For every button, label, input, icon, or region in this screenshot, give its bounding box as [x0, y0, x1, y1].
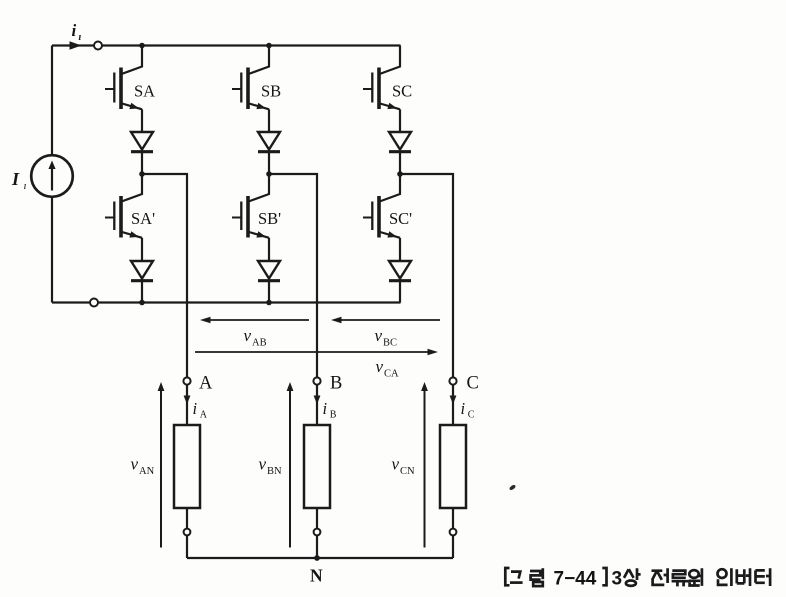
- svg-text:ı: ı: [79, 32, 82, 43]
- svg-text:SB: SB: [261, 82, 281, 101]
- caption hangul SANG (상): [624, 568, 641, 586]
- svg-text:v: v: [375, 326, 383, 345]
- caption hangul RYU (류): [672, 571, 689, 587]
- svg-text:v: v: [392, 455, 400, 474]
- junction node midpoint leg A: [139, 171, 145, 177]
- svg-text:I: I: [11, 169, 20, 189]
- terminal circle below load C: [450, 529, 457, 536]
- load resistor phase B: [304, 425, 330, 508]
- svg-text:A: A: [200, 410, 208, 421]
- svg-text:SA': SA': [131, 209, 155, 228]
- caption hangul RIM (림): [530, 568, 543, 586]
- current direction arrow i on top rail: [70, 41, 82, 49]
- caption hangul BEO (버): [737, 568, 750, 586]
- wire upper diode to midpoint node B: [268, 153, 270, 174]
- wire output branch C: midpoint to node C: [400, 174, 453, 377]
- wire terminal A to neutral line: [186, 535, 188, 558]
- load resistor phase C: [440, 425, 466, 508]
- open terminal circle on top rail: [94, 42, 102, 50]
- caption hangul GEU (그): [510, 572, 523, 583]
- svg-text:N: N: [310, 566, 323, 586]
- ink speck (scan artifact): [509, 484, 517, 491]
- transistor SA': [105, 174, 142, 238]
- wire upper diode to midpoint node C: [399, 153, 401, 174]
- wire A emitter to upper diode: [141, 109, 143, 132]
- svg-text:7−44: 7−44: [554, 569, 597, 590]
- caption bracket ]: [602, 568, 606, 585]
- node B terminal circle: [313, 377, 320, 384]
- arrow v_AN (points up): [160, 388, 162, 548]
- transistor SA: [105, 46, 142, 110]
- diode DC lower: [389, 261, 411, 281]
- wire upper diode to midpoint node A: [141, 153, 143, 174]
- svg-text:3: 3: [612, 569, 623, 590]
- junction node midpoint leg B: [266, 171, 272, 177]
- current source I_s: [31, 155, 73, 197]
- svg-text:v: v: [376, 357, 384, 376]
- svg-text:A: A: [199, 374, 213, 394]
- svg-text:B: B: [330, 374, 342, 394]
- svg-text:v: v: [131, 455, 139, 474]
- junction node N: [314, 555, 320, 561]
- caption hangul TEO (터): [755, 568, 770, 586]
- junction node bottom rail / leg A: [139, 300, 145, 306]
- wire terminal B to neutral line: [316, 535, 318, 558]
- caption hangul JEON (전): [652, 568, 668, 585]
- diode DB lower: [258, 261, 280, 281]
- transistor SB: [232, 46, 269, 110]
- wire C lower emitter to lower diode: [399, 238, 401, 261]
- wire node A to load, with current arrow i_A: [186, 385, 188, 425]
- arrow v_BN (points up): [289, 388, 291, 548]
- svg-text:C: C: [468, 410, 475, 421]
- wire output branch A: midpoint to node A: [142, 174, 187, 377]
- node A terminal circle: [183, 377, 190, 384]
- svg-text:v: v: [244, 326, 252, 345]
- terminal circle below load B: [314, 529, 321, 536]
- svg-text:SC: SC: [392, 82, 412, 101]
- diode DA upper: [131, 132, 153, 152]
- transistor SC': [363, 174, 400, 238]
- wire left vertical (source top): [51, 46, 53, 156]
- wire terminal C to neutral line: [452, 535, 454, 558]
- wire lower diode to bottom rail leg A: [141, 282, 143, 303]
- svg-text:CN: CN: [400, 466, 415, 477]
- svg-text:i: i: [72, 21, 77, 40]
- diode DC upper: [389, 132, 411, 152]
- caption hangul WON (원): [689, 568, 702, 586]
- svg-text:CA: CA: [384, 369, 399, 380]
- junction node top rail / leg B: [266, 43, 272, 49]
- svg-text:ı: ı: [24, 180, 27, 192]
- svg-text:i: i: [193, 399, 198, 418]
- wire node C to load, with current arrow i_C: [452, 385, 454, 425]
- wire A lower emitter to lower diode: [141, 238, 143, 261]
- wire top DC rail: [52, 44, 401, 46]
- caption bracket [: [505, 568, 509, 585]
- load resistor phase A: [174, 425, 200, 508]
- transistor SC: [363, 46, 400, 110]
- svg-text:AB: AB: [252, 338, 267, 349]
- wire neutral line N: [187, 557, 453, 559]
- wire lower diode to bottom rail leg C: [399, 282, 401, 303]
- svg-text:BC: BC: [383, 338, 397, 349]
- svg-text:C: C: [467, 374, 479, 394]
- wire lower diode to bottom rail leg B: [268, 282, 270, 303]
- node C terminal circle: [449, 377, 456, 384]
- wire B emitter to upper diode: [268, 109, 270, 132]
- svg-text:B: B: [330, 410, 337, 421]
- wire bottom DC rail: [52, 301, 401, 303]
- wire output branch B: midpoint to node B: [269, 174, 317, 377]
- svg-text:i: i: [461, 399, 466, 418]
- svg-text:BN: BN: [267, 466, 282, 477]
- wire load B bottom to terminal: [316, 508, 318, 529]
- junction node top rail / leg A: [139, 43, 145, 49]
- wire C emitter to upper diode: [399, 109, 401, 132]
- svg-text:SC': SC': [389, 209, 412, 228]
- terminal circle below load A: [184, 529, 191, 536]
- svg-text:AN: AN: [139, 466, 155, 477]
- arrow v_BC (points left): [335, 319, 440, 321]
- svg-text:v: v: [259, 455, 267, 474]
- arrow v_CA (points right): [195, 351, 428, 353]
- caption hangul IN (인): [718, 568, 732, 586]
- wire node B to load, with current arrow i_B: [316, 385, 318, 425]
- open terminal circle on bottom rail: [90, 299, 98, 307]
- diode DB upper: [258, 132, 280, 152]
- wire load C bottom to terminal: [452, 508, 454, 529]
- junction node midpoint leg C: [397, 171, 403, 177]
- transistor SB': [232, 174, 269, 238]
- svg-text:i: i: [323, 399, 328, 418]
- arrow v_AB (points left): [204, 319, 309, 321]
- wire B lower emitter to lower diode: [268, 238, 270, 261]
- wire left vertical (source bottom): [51, 197, 53, 303]
- svg-text:SB': SB': [258, 209, 281, 228]
- arrow v_CN (points up): [424, 388, 426, 548]
- junction node bottom rail / leg B: [266, 300, 272, 306]
- diode DA lower: [131, 261, 153, 281]
- svg-text:SA: SA: [134, 82, 155, 101]
- wire load A bottom to terminal: [186, 508, 188, 529]
